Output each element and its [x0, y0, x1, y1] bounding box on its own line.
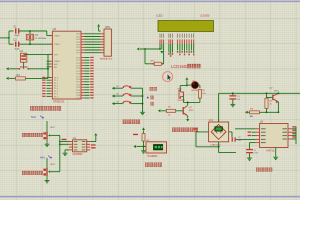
svg-text:RP1: RP1	[106, 26, 111, 29]
svg-text:P1.5: P1.5	[54, 91, 58, 93]
svg-text:P3.4: P3.4	[76, 90, 80, 92]
svg-text:LCD1602: LCD1602	[200, 15, 210, 17]
svg-text:P1.2: P1.2	[54, 83, 58, 85]
svg-text:P3.2: P3.2	[76, 84, 80, 86]
svg-text:P0.2: P0.2	[76, 39, 80, 41]
svg-text:U2: U2	[53, 27, 57, 31]
svg-text:P2.0: P2.0	[76, 57, 80, 59]
svg-text:11.0592MHz: 11.0592MHz	[35, 38, 46, 40]
svg-text:P3.1: P3.1	[76, 82, 80, 84]
svg-text:1k: 1k	[270, 103, 272, 105]
svg-text:P2.6: P2.6	[76, 74, 80, 76]
svg-text:DS18B20: DS18B20	[148, 156, 159, 158]
svg-text:P3.3: P3.3	[76, 87, 80, 89]
svg-text:P3.7: P3.7	[76, 98, 80, 100]
svg-text:1k: 1k	[168, 114, 170, 116]
svg-text:P2.4: P2.4	[76, 68, 80, 70]
svg-text:XTAL2: XTAL2	[54, 43, 61, 46]
svg-text:P0.5: P0.5	[76, 47, 80, 49]
svg-text:RESPACK-8: RESPACK-8	[100, 57, 113, 60]
svg-text:P2.5: P2.5	[76, 71, 80, 73]
svg-text:HX711: HX711	[266, 149, 275, 153]
svg-text:P0.7: P0.7	[76, 53, 80, 55]
svg-text:LCD1: LCD1	[156, 14, 163, 18]
svg-text:LCD1602: LCD1602	[171, 64, 189, 69]
svg-text:P2.7: P2.7	[76, 76, 80, 78]
svg-text:PSEN: PSEN	[54, 61, 60, 63]
svg-text:P2.3: P2.3	[76, 66, 80, 68]
svg-text:P0.3: P0.3	[76, 42, 80, 44]
svg-text:P3.6: P3.6	[76, 95, 80, 97]
svg-text:BUZZER: BUZZER	[178, 100, 186, 102]
svg-text:ALE: ALE	[54, 63, 58, 66]
svg-text:48%: 48%	[40, 156, 46, 159]
svg-text:P1.6: P1.6	[54, 94, 58, 96]
svg-text:4.7uF: 4.7uF	[253, 153, 259, 155]
svg-text:P0.1: P0.1	[76, 36, 80, 38]
svg-text:P0.0: P0.0	[76, 34, 80, 36]
svg-text:30pF: 30pF	[14, 35, 20, 37]
svg-text:P1.0: P1.0	[54, 77, 58, 79]
svg-text:P1.4: P1.4	[54, 88, 58, 90]
svg-text:P1.3: P1.3	[54, 86, 58, 88]
svg-text:LOADCELL: LOADCELL	[210, 144, 222, 147]
svg-text:P0.6: P0.6	[76, 50, 80, 52]
svg-text:P3.5: P3.5	[76, 93, 80, 95]
svg-text:AT89C51: AT89C51	[53, 100, 65, 104]
svg-text:P1.7: P1.7	[54, 96, 58, 98]
svg-text:P3.0: P3.0	[76, 79, 80, 81]
svg-text:C6: C6	[238, 137, 240, 139]
svg-text:ADC0832: ADC0832	[73, 153, 84, 156]
svg-text:52%: 52%	[31, 116, 37, 119]
svg-text:P1.1: P1.1	[54, 80, 58, 82]
svg-text:P0.4: P0.4	[76, 45, 80, 47]
svg-text:P2.1: P2.1	[76, 60, 80, 62]
svg-text:10k: 10k	[250, 116, 253, 118]
svg-text:XTAL1: XTAL1	[54, 35, 61, 38]
svg-text:P2.2: P2.2	[76, 63, 80, 65]
